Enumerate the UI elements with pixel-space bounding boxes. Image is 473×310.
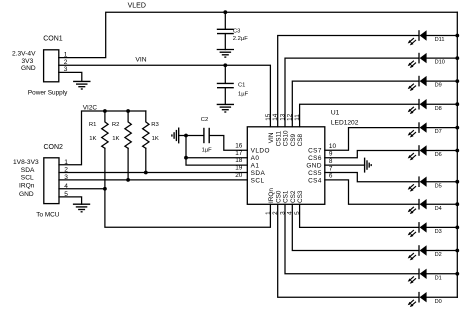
resistor R1 (102, 111, 108, 148)
svg-text:CS0: CS0 (275, 190, 282, 203)
LED D10 (408, 53, 427, 68)
svg-text:VIN: VIN (268, 132, 275, 143)
svg-text:CS3: CS3 (297, 190, 304, 203)
wire A0: ground junction down to U1 pin 17 (186, 136, 247, 158)
svg-text:15: 15 (265, 113, 272, 121)
svg-text:6: 6 (329, 173, 333, 180)
junction VI2C/R1 (103, 109, 107, 113)
svg-text:8: 8 (329, 158, 333, 165)
wire A1: down to U1 pin 18 (186, 158, 247, 165)
svg-text:C2: C2 (201, 117, 208, 123)
wire CS6: U1 pin 9 to LED D6 (325, 151, 419, 158)
svg-text:R3: R3 (151, 122, 159, 128)
svg-text:D8: D8 (435, 106, 442, 112)
wire IRQn: CON2 pin4 to R1 then around to U1 pin 1 (59, 189, 270, 227)
junction SDA/R3 (144, 171, 148, 175)
svg-text:R1: R1 (89, 122, 97, 128)
svg-text:GND: GND (19, 191, 34, 198)
svg-text:D6: D6 (435, 152, 442, 158)
wire VLED bus vertical on right (456, 12, 458, 297)
wire CS2: U1 pin 4 down to LED D2 (292, 204, 419, 250)
wire D2 anode to VLED bus (427, 250, 458, 252)
svg-text:7: 7 (329, 165, 333, 172)
svg-text:A1: A1 (251, 163, 260, 170)
LED D11 (408, 30, 427, 45)
junction VLED/C3 (223, 10, 227, 14)
junction VLED bus / D7 (455, 126, 459, 130)
svg-text:SCL: SCL (251, 177, 265, 184)
LED D6 (408, 145, 427, 160)
wire CS10: U1 pin 13 up to LED D10 (285, 58, 419, 127)
junction VLED bus / D11 (455, 34, 459, 38)
svg-text:1V8-3V3: 1V8-3V3 (13, 159, 39, 166)
junction VLED bus / D4 (455, 202, 459, 206)
junction SCL/R2 (126, 178, 130, 182)
wire D4 anode to VLED bus (427, 203, 458, 205)
ground left of C2 (172, 128, 179, 144)
wire CS8: U1 pin 11 up to LED D8 (300, 104, 419, 127)
svg-text:U1: U1 (331, 109, 340, 116)
wire SDA: CON2 pin2 to U1 pin 19 (59, 172, 247, 174)
junction VIN/C1 (223, 63, 227, 67)
wire D0 anode to VLED bus (427, 296, 458, 298)
svg-text:CON2: CON2 (44, 144, 64, 151)
svg-text:Power Supply: Power Supply (28, 89, 68, 96)
wire CS4: U1 pin 6 to LED D4 (325, 180, 419, 204)
svg-text:CS11: CS11 (275, 130, 282, 146)
svg-text:LED1202: LED1202 (331, 120, 359, 127)
ground at CON1 pin3 (73, 81, 90, 89)
wire D1 anode to VLED bus (427, 273, 458, 275)
wire VLED: CON1 pin1 up and across the top (59, 12, 458, 57)
wire VIN: CON1 pin2 across to U1 pin 15 (59, 65, 271, 127)
svg-text:C1: C1 (238, 82, 245, 88)
ground at CON2 pin5 (73, 204, 90, 212)
LED D8 (408, 99, 427, 114)
capacitor C1 (218, 65, 234, 104)
svg-text:VI2C: VI2C (83, 104, 98, 111)
wire D10 anode to VLED bus (427, 57, 458, 59)
wire D5 anode to VLED bus (427, 181, 458, 183)
svg-text:SCL: SCL (21, 174, 34, 181)
ground below C1 (217, 104, 234, 112)
svg-text:D0: D0 (435, 299, 442, 305)
svg-text:CS10: CS10 (283, 130, 290, 146)
svg-text:CON1: CON1 (43, 36, 63, 43)
wire CS0: U1 pin 2 down to LED D0 (278, 204, 419, 297)
ground below C3 (217, 50, 234, 58)
svg-text:CS7: CS7 (308, 148, 322, 155)
svg-text:1K: 1K (152, 136, 159, 142)
junction VLED bus / D8 (455, 102, 459, 106)
resistor R2 (125, 111, 131, 148)
wire CON2 pin5 to ground (59, 197, 82, 204)
svg-text:19: 19 (235, 165, 243, 172)
wire D7 anode to VLED bus (427, 127, 458, 129)
junction VLED bus / D6 (455, 149, 459, 153)
svg-text:D5: D5 (435, 183, 442, 189)
svg-text:D3: D3 (435, 229, 442, 235)
svg-text:SDA: SDA (251, 170, 266, 177)
svg-text:A0: A0 (251, 155, 260, 162)
wire CS11: U1 pin 14 up to LED D11 (278, 36, 419, 127)
op-amp U1 body (LED driver IC) (247, 127, 324, 205)
svg-text:1µF: 1µF (202, 147, 213, 153)
LED D9 (408, 76, 427, 91)
svg-text:VLED: VLED (128, 3, 146, 10)
wire D6 anode to VLED bus (427, 150, 458, 152)
svg-text:VIN: VIN (135, 56, 146, 63)
wire CS9: U1 pin 12 up to LED D9 (292, 81, 419, 127)
svg-text:D10: D10 (435, 60, 445, 66)
wire D8 anode to VLED bus (427, 103, 458, 105)
wire CON1 pin3 to ground (59, 72, 82, 81)
wire R1 bottom lead (104, 148, 106, 189)
wire R3 bottom lead (145, 148, 147, 172)
wire CS1: U1 pin 3 down to LED D1 (285, 204, 419, 273)
svg-text:D9: D9 (435, 83, 442, 89)
svg-text:9: 9 (329, 151, 333, 158)
capacitor C3 (218, 12, 234, 49)
junction VI2C/R2 (126, 109, 130, 113)
LED D1 (408, 269, 427, 284)
svg-text:R2: R2 (112, 122, 120, 128)
svg-text:2.2µF: 2.2µF (233, 36, 248, 42)
wire ground to C2 left plate (179, 135, 204, 137)
svg-text:CS6: CS6 (308, 155, 322, 162)
connector CON2 (44, 158, 59, 204)
junction VLED bus / D10 (455, 56, 459, 60)
svg-text:IRQn: IRQn (19, 183, 35, 190)
wire SCL: CON2 pin3 to U1 pin 20 (59, 179, 247, 181)
LED D0 (408, 292, 427, 307)
svg-text:GND: GND (306, 163, 322, 170)
svg-text:C3: C3 (233, 28, 240, 34)
svg-text:1K: 1K (112, 136, 119, 142)
wire VLDO: C2 right plate to U1 pin 16 (209, 136, 247, 151)
svg-text:1µF: 1µF (238, 92, 249, 98)
LED D3 (408, 222, 427, 237)
LED D2 (408, 245, 427, 260)
svg-text:20: 20 (235, 172, 243, 179)
junction VLED bus / D9 (455, 79, 459, 83)
junction VLED bus / D3 (455, 226, 459, 230)
wire CS5: U1 pin 7 to LED D5 (325, 173, 419, 182)
svg-text:VLDO: VLDO (251, 148, 270, 155)
wire D11 anode to VLED bus (427, 35, 458, 37)
svg-text:To MCU: To MCU (36, 212, 59, 219)
svg-text:10: 10 (329, 143, 337, 150)
wire VI2C: CON2 pin1 up to pull-up rail (59, 111, 146, 165)
svg-text:CS4: CS4 (308, 177, 322, 184)
svg-text:CS5: CS5 (308, 170, 322, 177)
svg-text:D2: D2 (435, 252, 442, 258)
junction VLED bus / D2 (455, 249, 459, 253)
LED D5 (408, 176, 427, 191)
LED D4 (408, 199, 427, 214)
wire CS7: U1 pin 10 to LED D7 (325, 128, 419, 151)
wire U1 GND pin 8 to ground (325, 164, 365, 166)
svg-text:CS2: CS2 (290, 190, 297, 203)
svg-text:1: 1 (265, 211, 272, 215)
svg-text:D7: D7 (435, 129, 442, 135)
svg-text:IRQn: IRQn (268, 188, 275, 203)
junction IRQn/R1 (103, 187, 107, 191)
LED D7 (408, 122, 427, 137)
resistor R3 (143, 111, 149, 148)
svg-text:CS9: CS9 (290, 134, 297, 147)
svg-text:1K: 1K (89, 136, 96, 142)
svg-text:CS1: CS1 (283, 190, 290, 203)
svg-text:17: 17 (235, 150, 243, 157)
svg-text:D1: D1 (435, 275, 442, 281)
junction C2-ground/A0A1 (184, 134, 188, 138)
capacitor C2 (204, 129, 209, 143)
wire CS3: U1 pin 5 down to LED D3 (300, 204, 419, 227)
junction A0/A1 drop (184, 156, 188, 160)
svg-text:CS8: CS8 (297, 134, 304, 147)
svg-text:GND: GND (21, 65, 36, 72)
junction VLED bus / D5 (455, 180, 459, 184)
wire D3 anode to VLED bus (427, 226, 458, 228)
svg-text:D11: D11 (435, 37, 445, 43)
wire R2 bottom lead (127, 148, 129, 180)
svg-text:D4: D4 (435, 206, 442, 212)
junction VLED bus / D1 (455, 272, 459, 276)
svg-text:2.3V-4V: 2.3V-4V (12, 51, 36, 58)
connector CON1 (44, 50, 59, 82)
ground at U1 pin 8 (365, 158, 372, 173)
wire D9 anode to VLED bus (427, 80, 458, 82)
svg-text:16: 16 (235, 142, 243, 149)
svg-text:SDA: SDA (21, 167, 35, 174)
svg-text:18: 18 (235, 157, 243, 164)
